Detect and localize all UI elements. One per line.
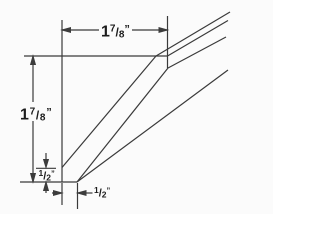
- extension line vertical right x=167.5: [167, 16, 169, 68]
- receding edge R2: [168, 21, 229, 57]
- receding edge R4 from bottom corner: [77, 70, 228, 182]
- svg-text:1/2”: 1/2”: [39, 168, 56, 183]
- arrowhead top-dim left: [62, 28, 71, 33]
- half-inch tick at left: [36, 167, 56, 169]
- svg-text:17/8”: 17/8”: [20, 107, 52, 124]
- receding edge R1 from top flat: [156, 12, 230, 56]
- extension line vertical left x=62: [61, 20, 63, 182]
- arrowhead bottom-dim pointing left to x=77.5: [78, 191, 87, 196]
- arrowhead half-dim down (points down to y=167.5): [44, 160, 49, 168]
- arrowhead bottom-dim pointing right to x=62: [54, 191, 63, 196]
- arrowhead left-dim down: [31, 174, 36, 183]
- arrowhead half-dim up (points up to y=182): [44, 182, 49, 191]
- arrowhead top-dim right: [159, 28, 168, 33]
- bottom half-dim arrow shafts: [52, 192, 61, 194]
- back bevel edge: [62, 56, 156, 168]
- svg-text:17/8”: 17/8”: [101, 24, 130, 41]
- front bevel edge: [77, 68, 168, 182]
- bottom half-dim extension verticals: [61, 183, 63, 205]
- receding edge R3 from front corner: [168, 37, 226, 68]
- svg-text:1/2”: 1/2”: [94, 185, 111, 200]
- arrowhead left-dim up: [31, 56, 36, 65]
- small vertical half-dim arrow shafts: [45, 153, 47, 166]
- top dimension line shafts: [62, 29, 99, 31]
- left dimension line shafts: [32, 56, 34, 102]
- bottom line y=182: [20, 181, 77, 183]
- extension line horizontal (top of profile, vertical-dim datum): [24, 55, 168, 57]
